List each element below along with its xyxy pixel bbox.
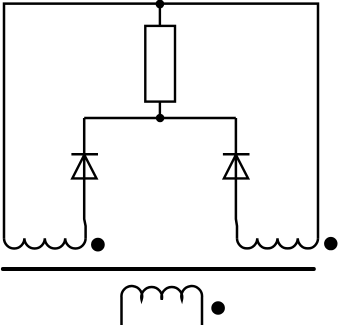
node: right winding polarity dot — [324, 237, 337, 250]
inductor L2: right secondary winding — [237, 238, 318, 248]
node: left winding polarity dot — [91, 238, 105, 252]
wire: resistor R1 bottom to center-tap node — [159, 102, 161, 118]
resistor R1 (box symbol) — [145, 26, 175, 102]
node: top junction dot — [156, 0, 165, 8]
wire: center horizontal bus — [84, 117, 236, 120]
wire: left branch (bus through diode D1 down to left winding) — [84, 118, 85, 238]
inductor L1: left secondary winding — [4, 238, 86, 248]
diode D1 triangle — [72, 155, 96, 179]
transformer core bar — [3, 267, 314, 271]
node: center-tap junction dot — [156, 114, 165, 123]
wire: outer loop (left leg, top bus, right leg) — [4, 4, 318, 239]
diode D2 triangle — [224, 155, 248, 179]
diode D2 cathode bar — [223, 153, 250, 156]
inductor L3: primary winding with leads — [121, 286, 202, 325]
node: primary winding polarity dot — [211, 301, 225, 315]
wire: right branch (bus through diode D2 down to right winding) — [236, 118, 237, 238]
wire: top node to resistor R1 top — [159, 4, 161, 27]
diode D1 cathode bar — [71, 153, 98, 156]
